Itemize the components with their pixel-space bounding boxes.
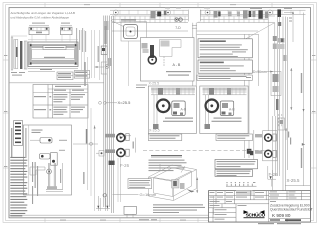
right roller fittings: [250, 114, 305, 190]
svg-text:D=96mm: D=96mm: [253, 70, 267, 74]
isometric drawing: [149, 165, 197, 201]
rotated dim text right: [301, 73, 302, 93]
right member fittings: [253, 22, 292, 130]
Technische Daten box: [198, 60, 252, 73]
svg-text:X-25.5: X-25.5: [149, 82, 160, 86]
corner inset detail box: [111, 19, 147, 86]
svg-text:X-25.5: X-25.5: [287, 178, 300, 183]
Montageanweisung note: [149, 155, 187, 171]
bottom dimension forks: [96, 196, 110, 211]
right top dimension lines: [284, 13, 304, 187]
small labels under bar stack: [11, 72, 25, 76]
svg-text:A - B: A - B: [173, 63, 181, 67]
small label box pair: [57, 71, 90, 80]
note bar below: [197, 75, 252, 80]
Anwendungsbereich box: [198, 39, 252, 58]
hatch part right of mullion: [108, 58, 112, 66]
svg-text:X=25.5: X=25.5: [118, 100, 132, 105]
fittings on head band: [151, 8, 293, 19]
left assembly: box2: [61, 27, 73, 34]
54 dim label: [83, 172, 84, 184]
caption bar under box 3: [216, 134, 253, 141]
fold scale ticks: [226, 182, 257, 186]
right column note box R1: [215, 160, 258, 169]
small text box in isometric area: [128, 179, 152, 189]
left profile bar stack: [11, 30, 84, 70]
G-16mm label: [113, 192, 157, 197]
rail band tick marks: [115, 16, 264, 22]
right lower dimension fork: [268, 166, 311, 187]
top-left note text: [11, 11, 76, 20]
left mullion verticals: [104, 16, 114, 214]
svg-text:Querstückauslauf Kunststoff: Querstückauslauf Kunststoff: [270, 208, 312, 212]
svg-text:F-26: F-26: [120, 163, 130, 168]
left overall-height dimension: [87, 57, 89, 190]
right column note box R2: [215, 170, 253, 177]
svg-text:Anschlußgröße und Längen der Z: Anschlußgröße und Längen der Zuganker L,…: [11, 11, 76, 15]
right member verticals: [278, 17, 288, 191]
left mullion fittings: [98, 21, 109, 80]
mid mullion pair: [192, 23, 197, 86]
left assembly: box1: [29, 27, 49, 34]
7-D hanger: [175, 18, 182, 30]
bottom area separator line: [10, 214, 209, 216]
left assembly: dimension labels: [32, 23, 70, 24]
extension lines to right dim: [92, 30, 95, 78]
X=25.5 label mid-left: [118, 100, 132, 138]
big lower-left detail box: [24, 125, 72, 195]
head band lines: [110, 10, 306, 34]
caption bar under box 2: [148, 134, 182, 141]
bottom margin text: [139, 219, 301, 224]
head band splice white-out: [188, 9, 200, 21]
svg-text:K 909 80: K 909 80: [272, 213, 291, 218]
right sash pane verticals: [245, 14, 275, 158]
svg-text:G=16mm: G=16mm: [140, 192, 157, 197]
rotated part-name labels: [76, 28, 86, 52]
X=25.5 leader nodes: [99, 101, 102, 104]
legend strip box: [14, 121, 23, 146]
section marker circles on head band: [113, 10, 272, 15]
weights table: [33, 85, 88, 119]
dense notes text block: [10, 157, 27, 217]
caption under isometric: [153, 204, 205, 213]
svg-text:und Abdeckprofile G,M: mittler: und Abdeckprofile G,M: mittlere Abdeckka…: [11, 16, 70, 20]
svg-text:7-D: 7-D: [175, 26, 181, 30]
left roller fittings: [105, 134, 135, 165]
node circle on left mullion: [105, 65, 109, 69]
svg-text:A-B: A-B: [181, 108, 187, 112]
main assembly body: [28, 35, 78, 67]
sash diagonal: [222, 23, 275, 52]
bottom center drain box: [103, 194, 136, 219]
tiny label above box2: [136, 85, 147, 86]
SCHÜCO logo: [244, 210, 266, 218]
small 2-row box left of box1 caption: [148, 72, 161, 79]
svg-text:X-25.5: X-25.5: [149, 129, 160, 133]
svg-text:A-B: A-B: [229, 108, 235, 112]
middle rotated note column: [32, 162, 38, 204]
separator line above table: [10, 82, 104, 84]
left margin rotated note: [11, 128, 12, 158]
assembly lower dimension: [28, 68, 78, 71]
fold dashed line: [143, 150, 267, 152]
title texts: [270, 204, 312, 218]
